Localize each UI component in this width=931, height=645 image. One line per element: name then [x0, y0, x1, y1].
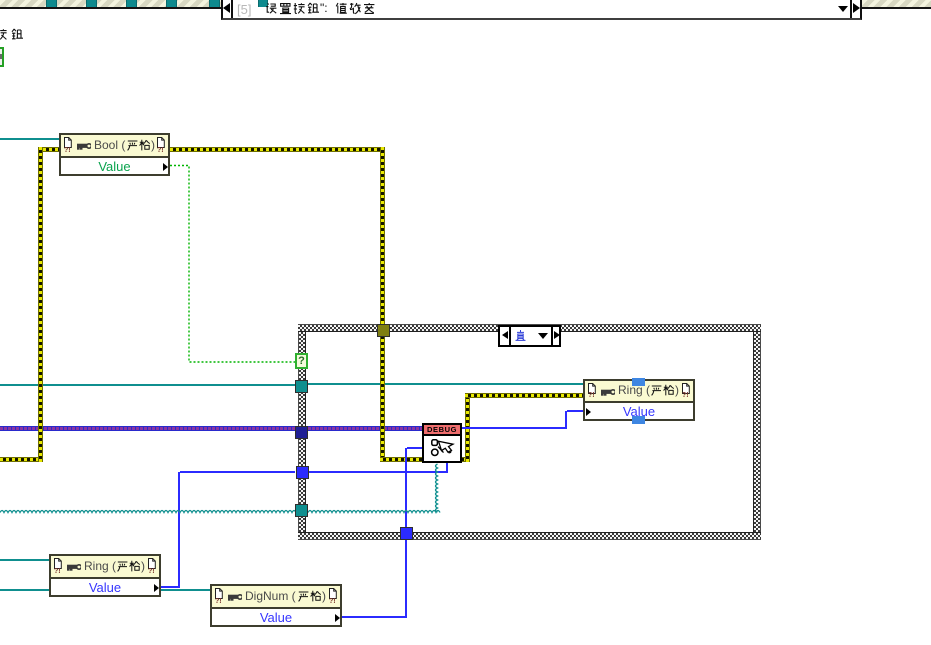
property node: Ring (strict) bottom left [49, 554, 161, 597]
selection handle bottom [632, 416, 645, 424]
tunnel: blue left [296, 466, 309, 479]
header right increment arrow [853, 3, 860, 13]
event case selector header box [221, 0, 862, 20]
tunnel: wavy refnum left [295, 504, 308, 517]
case structure bottom border [298, 532, 761, 540]
hidden svg defs: CJK glyphs [0, 0, 1, 1]
event structure top border (right segment) [862, 0, 931, 7]
wire: blue Ring out to case to DEBUG bottom [161, 586, 179, 588]
case structure top border [298, 324, 761, 332]
case structure right border [753, 332, 761, 532]
tunnel: blue bottom [400, 527, 413, 540]
wire: teal refnum to DigNum node [0, 589, 210, 591]
header teal square artifact [258, 0, 268, 7]
wire: teal refnum inside case to Ring [308, 383, 583, 385]
header case index [5] [237, 2, 251, 17]
error wire: vertical through case top tunnel [380, 147, 385, 462]
clipped boolean terminal [0, 47, 4, 67]
wire: class wire inside case to DEBUG [308, 426, 422, 431]
wire: boolean dotted from Bool Value to selector [170, 166, 295, 363]
wire: wavy refnum inside case [308, 511, 440, 513]
property node: DigNum (strict) [210, 584, 342, 627]
event border bottom line (right) [862, 7, 931, 9]
tunnel: teal refnum left [295, 380, 308, 393]
DEBUG subVI [422, 423, 462, 463]
header left decrement arrow [223, 3, 230, 13]
header right divider [850, 0, 852, 18]
wire: wavy refnum vertical below DEBUG [436, 464, 438, 512]
tunnel: class wire left [295, 426, 308, 439]
header left divider [231, 0, 233, 18]
wire: wavy refnum outside case [0, 511, 296, 513]
error wire: bottom-left horizontal [0, 457, 43, 462]
wire: teal refnum to Bool node [0, 138, 59, 140]
case selector label [498, 325, 561, 347]
event border bottom line (left) [0, 7, 221, 9]
error wire: left vertical [38, 147, 43, 462]
error wire: horizontal to case Ring node [465, 393, 583, 398]
free label (clipped) [0, 28, 27, 42]
case structure left border [298, 332, 306, 532]
error wire: vertical up to Ring level [465, 393, 470, 462]
tunnel: error wire through case top [377, 324, 390, 337]
property node: Bool (strict) [59, 133, 170, 176]
property node: Ring (strict) in case [583, 379, 695, 421]
selection handle top [632, 378, 645, 386]
header case name CJK glyphs [265, 2, 385, 16]
wire: teal refnum to case (outside) [0, 384, 295, 386]
error wire: into Bool node [43, 147, 59, 152]
wire: blue DigNum out up into case to DEBUG [342, 616, 406, 618]
error wire: horizontal behind DEBUG [380, 457, 470, 462]
error wire: Bool to case tunnel [170, 147, 385, 152]
wire: class wire outside case [0, 426, 295, 431]
header dropdown arrow [838, 6, 848, 12]
event border teal blocks [46, 0, 57, 7]
wire: blue DEBUG out to case Ring [462, 427, 566, 429]
event structure top border (left segment) [0, 0, 221, 7]
case selector terminal ? [295, 353, 308, 369]
wire: teal refnum to bottom Ring node [0, 559, 49, 561]
